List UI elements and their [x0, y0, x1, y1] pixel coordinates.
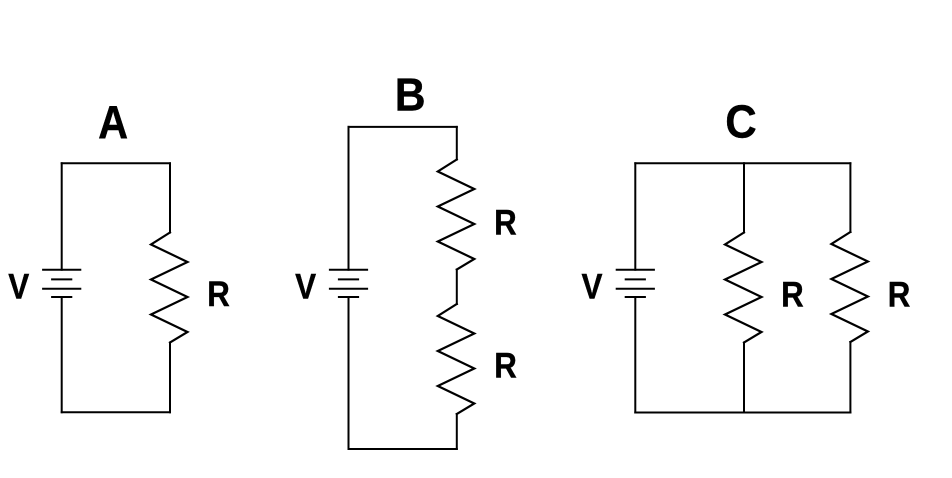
wire C middle lower — [743, 343, 745, 413]
wire A left lower — [61, 297, 63, 412]
resistor R2 (circuit B lower) — [438, 304, 475, 414]
wire C left lower — [634, 297, 636, 413]
wire A left upper — [61, 163, 63, 269]
svg-text:V: V — [8, 267, 30, 306]
wire B bottom — [349, 448, 457, 450]
wire C bottom — [635, 412, 850, 414]
wire B right lower — [456, 414, 458, 449]
wire C middle upper — [743, 163, 745, 232]
svg-text:A: A — [98, 96, 128, 148]
svg-text:B: B — [395, 69, 426, 121]
svg-text:R: R — [494, 204, 517, 243]
wire A top — [62, 162, 170, 164]
wire C left upper — [634, 163, 636, 270]
svg-text:R: R — [207, 275, 230, 314]
wire B right upper — [456, 127, 458, 160]
svg-text:R: R — [888, 276, 911, 315]
svg-text:R: R — [781, 276, 804, 315]
wire C right upper — [849, 163, 851, 232]
wire A right upper — [169, 163, 171, 232]
svg-text:V: V — [295, 267, 317, 306]
wire C right lower — [849, 342, 851, 413]
battery V (circuit B) — [330, 270, 367, 297]
wire B right middle — [456, 270, 458, 305]
wire B left lower — [348, 297, 350, 449]
svg-text:C: C — [725, 95, 757, 147]
resistor R (circuit C right) — [831, 232, 868, 342]
wire B top — [349, 126, 457, 128]
wire A right lower — [169, 343, 171, 413]
wire C top — [635, 162, 850, 164]
svg-text:V: V — [582, 267, 604, 306]
wire A bottom — [62, 411, 170, 413]
battery V (circuit C) — [617, 270, 654, 297]
resistor R (circuit C middle) — [725, 233, 762, 343]
resistor R (circuit A) — [151, 233, 188, 343]
svg-text:R: R — [494, 347, 517, 386]
resistor R1 (circuit B upper) — [438, 160, 475, 270]
battery V (circuit A) — [43, 270, 80, 297]
wire B left upper — [348, 127, 350, 270]
